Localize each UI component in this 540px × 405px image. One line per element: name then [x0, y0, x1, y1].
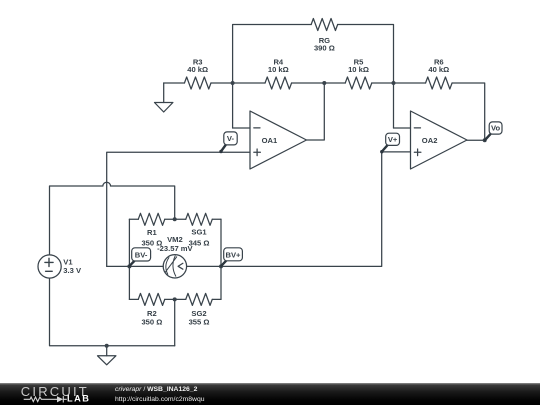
- svg-text:-23.57 mV: -23.57 mV: [157, 244, 193, 253]
- node flag Vo: [485, 122, 502, 140]
- op-amp OA1 plus sign: [254, 149, 261, 156]
- CircuitLab logo: [0, 383, 100, 405]
- resistor RG 390 ohm: [311, 19, 338, 31]
- resistor R1 350 ohm: [138, 213, 165, 225]
- node flag BV+: [221, 248, 242, 266]
- wire: bridge right vertical: [220, 219, 222, 299]
- svg-text:V+: V+: [388, 135, 398, 144]
- op-amp OA2 minus sign: [414, 127, 420, 129]
- svg-text:VM2: VM2: [167, 235, 183, 244]
- footer bar: [0, 383, 540, 405]
- svg-text:40 kΩ: 40 kΩ: [187, 65, 208, 74]
- op-amp OA1 triangle: [250, 111, 307, 169]
- voltmeter VM2 arrowhead: [178, 263, 183, 269]
- strain gauge SG1 345 ohm: [186, 213, 213, 225]
- svg-text:LAB: LAB: [67, 393, 90, 403]
- voltmeter VM2 circle: [163, 255, 186, 278]
- op-amp OA2 plus sign: [414, 149, 421, 156]
- wire: bridge top rail: [129, 218, 221, 220]
- label SG1: [189, 228, 210, 248]
- resistor R4 10k: [265, 77, 292, 89]
- resistor R6 40k: [426, 77, 453, 89]
- wire: OA2 output to Vo junction: [467, 139, 485, 141]
- footer text: [115, 385, 205, 404]
- label R5: [348, 58, 369, 75]
- wire: OA1 minus input stub: [233, 127, 250, 129]
- svg-text:OA2: OA2: [422, 136, 438, 145]
- wire: resistor row y=83 from ground1 to far right drop to OA2 output: [164, 83, 485, 140]
- wire: OA2 minus input stub: [394, 127, 411, 129]
- svg-text:10 kΩ: 10 kΩ: [268, 65, 289, 74]
- svg-text:10 kΩ: 10 kΩ: [348, 65, 369, 74]
- svg-text:SG1: SG1: [191, 228, 207, 237]
- label RG: [314, 36, 335, 53]
- wire: bridge middle rail through VM2 and up to OA2 plus input: [107, 152, 411, 267]
- svg-text:V-: V-: [227, 134, 235, 143]
- node flag V-: [219, 132, 237, 153]
- label V1: [63, 257, 82, 275]
- svg-text:BV+: BV+: [226, 250, 242, 259]
- wire: bridge left vertical: [128, 219, 130, 299]
- node flag V+: [380, 133, 399, 153]
- label R3: [187, 58, 208, 75]
- resistor R2 350 ohm: [138, 293, 165, 305]
- label R2: [141, 309, 162, 327]
- voltage source V1 minus sign: [46, 270, 53, 272]
- label SG2: [189, 309, 210, 327]
- wire: bridge bottom middle down: [174, 299, 176, 345]
- svg-text:OA1: OA1: [262, 136, 278, 145]
- svg-text:350 Ω: 350 Ω: [141, 318, 162, 327]
- op-amp OA1 minus sign: [254, 127, 260, 129]
- wire: V1 bottom rail: [50, 278, 175, 346]
- svg-text:40 kΩ: 40 kΩ: [428, 65, 449, 74]
- svg-text:R1: R1: [147, 228, 157, 237]
- svg-text:Vo: Vo: [491, 124, 501, 133]
- label R1: [141, 228, 162, 247]
- voltage source V1 circle: [38, 255, 61, 278]
- ground G1 symbol: [155, 103, 173, 113]
- wire: OA1 output up to R4/R5 junction: [307, 83, 325, 140]
- ground G2 stub: [106, 346, 108, 356]
- svg-text:3.3 V: 3.3 V: [63, 266, 82, 275]
- voltage source V1 plus sign: [45, 258, 53, 266]
- label R6: [428, 58, 449, 75]
- op-amp OA2 triangle: [411, 111, 468, 169]
- svg-text:355 Ω: 355 Ω: [189, 318, 210, 327]
- wire: bridge bottom rail: [129, 298, 221, 300]
- resistor R5 10k: [345, 77, 372, 89]
- resistor R3 40k: [184, 77, 211, 89]
- label R4: [268, 58, 289, 75]
- voltmeter VM2 needle and arcs: [165, 256, 176, 276]
- wire: RG top loop (x=232.6 down to OA1 minus, top rail, x=393.5 down to OA2 minus): [233, 25, 394, 129]
- node flag BV-: [130, 248, 151, 266]
- wire: V1 top to bridge top middle (hop over V- vertical): [50, 182, 175, 255]
- label VM2: [157, 235, 193, 253]
- svg-text:390 Ω: 390 Ω: [314, 44, 335, 53]
- strain gauge SG2 355 ohm: [186, 293, 213, 305]
- ground G1 stub: [163, 83, 165, 103]
- wire: V- net from OA1 plus input left and down to bridge middle: [107, 152, 250, 266]
- svg-text:BV-: BV-: [135, 250, 148, 259]
- ground G2 symbol: [98, 356, 116, 365]
